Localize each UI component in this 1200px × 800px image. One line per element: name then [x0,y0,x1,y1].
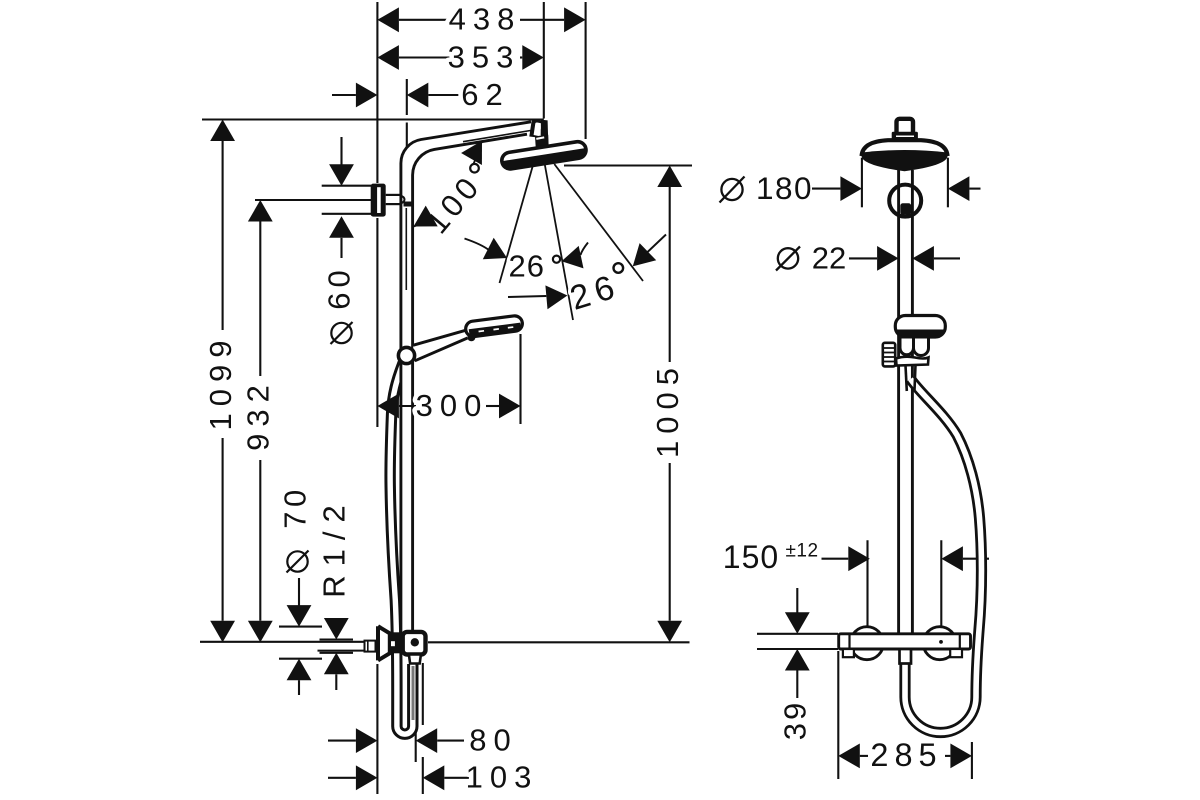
wall bracket bar [322,186,371,214]
dimension 62 line and arrows [332,77,510,112]
svg-text:70: 70 [278,485,313,528]
ball joint on pipe [889,185,921,217]
label 26deg second [566,263,625,318]
top datum line y=119.5 (left view) [202,118,544,120]
head pivot stem [536,147,548,155]
elbow body [403,632,426,655]
angle 26deg first arrows [465,238,589,269]
hand shower hose (front view) [905,379,982,733]
extension line x=543.8 for dim 353 [543,2,545,119]
extension line x=422.8 for dim 103 [422,663,424,794]
dimension 285 line, arrows, label [838,737,972,773]
dimension 103 line and arrows [328,760,538,795]
svg-text:±12: ±12 [785,541,818,562]
hand shower in holder (front view) [895,316,945,392]
svg-text:62: 62 [461,77,509,112]
union circles [850,627,956,660]
valve end tabs [843,649,962,657]
extension lines for dim 39 [757,634,838,649]
extension lines for R1/2 [320,640,354,653]
svg-text:60: 60 [322,265,357,309]
extension line x=585.6 for dim 438 [585,2,587,139]
supply stub lines [318,650,365,652]
extension line x=415.7 for dim 80 [415,725,417,762]
svg-text:180: 180 [756,170,813,206]
dimension 932 line, arrows, label [240,200,275,642]
dimension 150 line, arrows, label [723,539,989,575]
svg-text:39: 39 [777,700,812,740]
extension line x=520.5 for dim 300 [519,334,521,424]
svg-text:285: 285 [870,737,942,773]
label 26deg first [508,248,560,283]
dimension dia60 arrows and label [322,137,357,344]
extension line for 932 at bracket center [255,199,371,201]
svg-text:932: 932 [240,378,275,451]
union nut [390,632,403,653]
dimension 1099 line, arrows, label [203,120,238,643]
dimension R1/2 arrows and label [317,496,352,690]
hand shower head (left view) [465,315,523,341]
dimension 438 line and arrows [377,2,585,37]
hand shower handle (left view) [413,330,468,361]
svg-text:1099: 1099 [203,334,238,431]
extension lines for dia 70 [279,627,322,659]
hose outlet below valve [900,649,912,664]
shower arm connector joint [529,120,548,149]
extension lines for dim 150 [868,540,942,626]
svg-text:103: 103 [466,760,539,795]
dimension 80 line and arrows [328,722,518,757]
dimension dia70 arrows and label [278,485,313,695]
dimension 353 line and arrows [377,39,543,74]
svg-text:438: 438 [449,2,522,37]
spray line middle [545,164,573,320]
riser pipe (front view) [899,170,913,634]
label 100deg [419,164,488,240]
dimension 39 line, arrows, label [777,588,812,740]
spray line right [554,164,643,281]
holder clamp knob [883,343,895,367]
spray line left [500,164,534,283]
svg-text:300: 300 [416,388,489,423]
thermostat valve body [839,634,971,649]
extension line y=165.5 for dim 1005 [564,164,692,166]
dimension dia180 line, arrows, label [720,170,981,206]
hand shower hose (left view) [390,357,413,734]
svg-text:22: 22 [812,240,846,275]
svg-text:R1/2: R1/2 [317,496,352,597]
svg-text:353: 353 [448,39,521,74]
baseline wall line y=642.3 (left view) [200,641,690,644]
svg-text:80: 80 [469,722,517,757]
wall bracket stem [386,195,412,207]
angle 100deg arc [414,141,483,227]
angle 100deg arrows [414,141,483,227]
wall bracket flange [371,184,386,217]
hand shower holder ring [398,347,414,363]
riser pipe (left view) [401,122,531,633]
extension lines for dia 180 [862,158,948,208]
svg-text:1005: 1005 [650,361,685,458]
extension line x=406.8 for dim 62 [406,79,408,152]
escutcheon cone [378,626,390,660]
svg-text:26: 26 [508,248,544,283]
overhead shower head (left view) [501,141,588,171]
dimension dia22 line, arrows, label [776,240,960,275]
dimension 300 line, arrows, label [377,388,520,423]
overhead shower head (front view) [862,140,948,171]
head top finial [892,119,918,140]
svg-text:150: 150 [723,539,779,575]
elbow hose stub [409,655,421,664]
angle 26deg second arrow [508,235,666,310]
extension lines for dim 285 [838,651,972,779]
wall extension line (vertical datum, left view) [376,2,378,794]
supply fitting square [365,641,376,652]
dimension 1005 line, arrows, label [650,166,685,643]
